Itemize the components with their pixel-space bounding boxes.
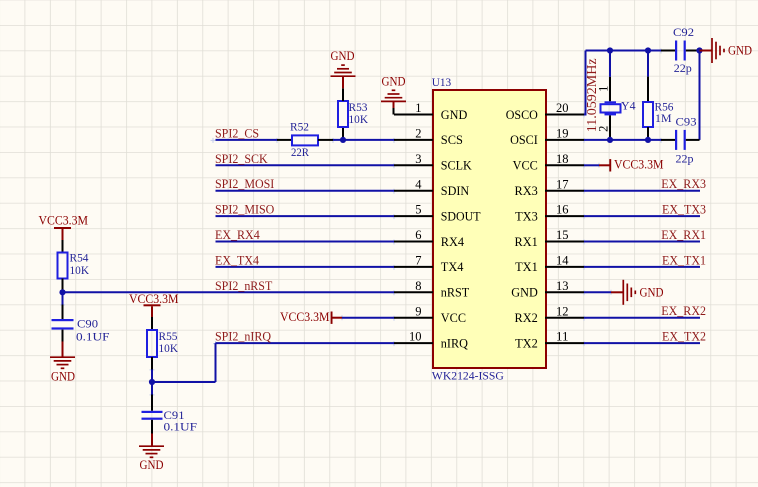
svg-text:16: 16 [556, 203, 569, 217]
svg-text:EX_RX4: EX_RX4 [215, 228, 260, 242]
wire node to C90 [62, 292, 64, 304]
svg-text:SPI2_nIRQ: SPI2_nIRQ [215, 330, 271, 344]
svg-text:17: 17 [556, 177, 569, 191]
ground GND at pin 13 [584, 280, 664, 305]
power port VCC3.3M at pin 9 [280, 310, 342, 324]
wire node to C91 [151, 382, 153, 395]
svg-text:EX_RX1: EX_RX1 [661, 228, 706, 242]
svg-text:nIRQ: nIRQ [441, 336, 468, 350]
wire top rail OSCO net [586, 50, 662, 52]
svg-text:R52: R52 [290, 120, 309, 134]
svg-text:15: 15 [556, 228, 569, 242]
svg-text:GND: GND [441, 108, 468, 122]
svg-text:SPI2_nRST: SPI2_nRST [215, 279, 273, 293]
wire nIRQ vertical drop [215, 343, 217, 382]
wire net SPI2_nRST [63, 291, 395, 293]
svg-text:20: 20 [556, 101, 569, 115]
svg-text:RX2: RX2 [515, 311, 538, 325]
wire nIRQ to R55/C91 node [152, 381, 216, 383]
ground GND below C91 [139, 434, 164, 472]
wire net EX_TX3 [584, 215, 700, 217]
svg-text:EX_RX2: EX_RX2 [661, 304, 706, 318]
svg-text:7: 7 [415, 254, 421, 268]
svg-text:RX3: RX3 [515, 184, 538, 198]
pin 15 RX1 [515, 228, 585, 249]
svg-text:1: 1 [415, 101, 421, 115]
svg-text:3: 3 [415, 152, 421, 166]
pin 3 SCLK [394, 152, 472, 173]
junction node C92/GND [696, 47, 702, 53]
wire net SPI2_MOSI [216, 190, 395, 192]
svg-text:0.1UF: 0.1UF [164, 419, 198, 433]
wire net SPI2_CS left segment [216, 139, 278, 141]
svg-text:SPI2_MISO: SPI2_MISO [215, 203, 274, 217]
svg-text:VCC3.3M: VCC3.3M [280, 310, 330, 324]
svg-text:GND: GND [51, 369, 75, 383]
svg-text:C93: C93 [676, 114, 697, 128]
svg-text:TX1: TX1 [515, 260, 538, 274]
svg-text:1M: 1M [655, 111, 672, 125]
pin 9 VCC [394, 304, 466, 325]
svg-text:GND: GND [511, 286, 538, 300]
pin 18 VCC [513, 152, 584, 173]
ground GND at pin 1 [381, 75, 406, 115]
svg-text:EX_TX2: EX_TX2 [662, 330, 706, 344]
ground GND top right [700, 38, 753, 63]
svg-text:5: 5 [415, 203, 421, 217]
svg-text:18: 18 [556, 152, 569, 166]
svg-text:12: 12 [556, 304, 569, 318]
svg-text:TX3: TX3 [515, 209, 538, 223]
pin 12 RX2 [515, 304, 585, 325]
resistor R53 [338, 88, 368, 140]
svg-text:11.0592MHz: 11.0592MHz [585, 58, 600, 132]
svg-text:EX_RX3: EX_RX3 [661, 177, 706, 191]
wire right vertical OSCI net [699, 51, 701, 140]
junction node nRST/R54/C90 [59, 289, 65, 295]
pin 19 OSCI [510, 127, 584, 148]
svg-text:WK2124-ISSG: WK2124-ISSG [432, 369, 504, 383]
connection point marks [60, 49, 664, 398]
wire bottom rail OSCI net [584, 139, 661, 141]
junction node Y4 bottom [607, 137, 613, 143]
svg-text:14: 14 [556, 254, 569, 268]
wire net EX_RX3 [584, 190, 700, 192]
svg-text:VCC: VCC [441, 311, 466, 325]
svg-text:19: 19 [556, 127, 569, 141]
svg-text:RX4: RX4 [441, 235, 465, 249]
svg-text:2: 2 [415, 127, 421, 141]
pin 5 SDOUT [394, 203, 481, 224]
wire net SPI2_MISO [216, 215, 395, 217]
junction node R55/C91/nIRQ [149, 379, 155, 385]
wire net EX_RX4 [216, 241, 395, 243]
wire R55 to node [151, 370, 153, 383]
wire VCC port to pin 9 [342, 317, 394, 319]
svg-text:TX4: TX4 [441, 260, 464, 274]
svg-text:22R: 22R [291, 145, 309, 159]
junction node Y4 top [607, 47, 613, 53]
svg-text:GND: GND [382, 75, 406, 89]
svg-text:C92: C92 [673, 25, 694, 39]
wire pin20 to crystal rail [584, 51, 586, 115]
pin 8 nRST [394, 279, 470, 300]
svg-text:SDIN: SDIN [441, 184, 469, 198]
svg-text:EX_TX1: EX_TX1 [662, 253, 706, 267]
power port VCC3.3M above R55 [129, 292, 179, 317]
wire net SPI2_nIRQ [216, 342, 395, 344]
crystal Y4 [597, 51, 636, 140]
IC U13 WK2124-ISSG [433, 90, 546, 368]
svg-text:22p: 22p [676, 151, 694, 165]
resistor R54 [58, 240, 90, 292]
svg-text:GND: GND [331, 49, 355, 63]
junction node R53/SCS [340, 137, 346, 143]
svg-text:10K: 10K [70, 263, 90, 277]
svg-text:VCC: VCC [513, 159, 538, 173]
svg-text:nRST: nRST [441, 286, 470, 300]
svg-text:EX_TX3: EX_TX3 [662, 203, 706, 217]
resistor R55 [147, 317, 178, 370]
svg-text:SPI2_CS: SPI2_CS [215, 126, 259, 140]
svg-text:0.1UF: 0.1UF [76, 329, 110, 343]
pin 14 TX1 [515, 254, 584, 275]
svg-text:11: 11 [556, 330, 569, 344]
power port VCC3.3M at pin 18 [584, 158, 664, 172]
wire net EX_RX1 [584, 241, 700, 243]
svg-text:SPI2_SCK: SPI2_SCK [215, 152, 268, 166]
wire R52 to pin2 [333, 139, 394, 141]
resistor R52 [277, 120, 333, 160]
capacitor C91 [142, 395, 198, 434]
svg-text:SDOUT: SDOUT [441, 209, 481, 223]
junction node R56 top [645, 47, 651, 53]
svg-text:TX2: TX2 [515, 336, 538, 350]
wire net EX_RX2 [584, 317, 700, 319]
svg-text:SPI2_MOSI: SPI2_MOSI [215, 177, 274, 191]
svg-text:EX_TX4: EX_TX4 [215, 253, 260, 267]
wire net EX_TX1 [584, 266, 700, 268]
wire net EX_TX2 [584, 342, 700, 344]
svg-text:GND: GND [140, 458, 164, 472]
svg-text:OSCO: OSCO [506, 108, 538, 122]
svg-text:10: 10 [409, 330, 422, 344]
svg-text:C90: C90 [77, 316, 98, 330]
svg-text:13: 13 [556, 279, 569, 293]
svg-text:VCC3.3M: VCC3.3M [614, 158, 664, 172]
svg-text:9: 9 [415, 304, 421, 318]
capacitor C90 [52, 305, 110, 344]
power port VCC3.3M above R54 [39, 213, 89, 240]
svg-text:4: 4 [415, 177, 422, 191]
capacitor C93 [661, 114, 700, 165]
svg-text:10K: 10K [349, 112, 369, 126]
pin 6 RX4 [394, 228, 465, 249]
svg-text:8: 8 [415, 279, 421, 293]
svg-text:SCS: SCS [441, 133, 463, 147]
pin 20 OSCO [506, 101, 584, 122]
junction node R56 bottom [645, 137, 651, 143]
pin 13 GND [511, 279, 584, 300]
svg-text:22p: 22p [674, 61, 692, 75]
capacitor C92 [661, 25, 700, 75]
pin 17 RX3 [515, 177, 585, 198]
svg-text:Y4: Y4 [621, 98, 636, 112]
svg-text:RX1: RX1 [515, 235, 538, 249]
pin 1 GND [394, 101, 467, 122]
svg-text:SCLK: SCLK [441, 159, 472, 173]
svg-text:U13: U13 [432, 75, 452, 89]
pin 11 TX2 [515, 330, 584, 351]
resistor R56 [643, 51, 674, 140]
svg-text:OSCI: OSCI [510, 133, 538, 147]
wire net SPI2_SCK [216, 164, 395, 166]
wire net EX_TX4 [216, 266, 395, 268]
svg-text:6: 6 [415, 228, 421, 242]
svg-text:GND: GND [728, 43, 752, 57]
ground GND below C90 [50, 342, 75, 384]
pin 7 TX4 [394, 254, 464, 275]
pin 16 TX3 [515, 203, 584, 224]
svg-text:GND: GND [640, 286, 664, 300]
ground GND above R53 [331, 49, 356, 88]
svg-text:VCC3.3M: VCC3.3M [129, 292, 179, 306]
pin 2 SCS [394, 127, 463, 148]
pin 4 SDIN [394, 177, 469, 198]
pin 10 nIRQ [394, 330, 468, 351]
svg-text:10K: 10K [159, 341, 179, 355]
svg-text:VCC3.3M: VCC3.3M [39, 213, 89, 227]
